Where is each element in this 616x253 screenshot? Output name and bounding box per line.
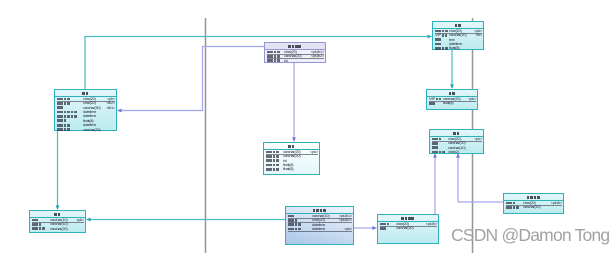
page boundary line left <box>205 18 207 253</box>
wire 清理桌面→厨师员工 (violet) <box>354 227 373 229</box>
wire 订单→桌面 (teal) <box>57 130 59 206</box>
table 订单菜品 (OrderItem) <box>264 42 326 63</box>
arrowhead into 桌面 top edge <box>56 205 60 210</box>
wire 顾客→会员 (teal) <box>451 50 453 85</box>
wire 订单菜品→订单 (violet) <box>121 47 264 111</box>
wire 厨师员工→员工 (violet) <box>434 157 436 214</box>
arrowhead into 菜品 top edge <box>292 137 296 142</box>
table 员工 (Employee) <box>429 129 484 154</box>
table 前台员工 (Front-desk staff) <box>503 193 564 214</box>
arrowhead into 订单 right edge <box>117 109 122 113</box>
table 会员 (VIP level) <box>426 89 478 110</box>
wire 清理桌面→桌面 (teal) <box>90 219 285 221</box>
watermark CSDN @Damon Tong <box>451 225 609 246</box>
arrowhead into 会员 top edge <box>450 84 454 89</box>
arrowhead into 厨师员工 left edge <box>372 226 377 230</box>
wire 前台员工→员工 (violet) <box>458 157 503 202</box>
table 清理桌面 (Table cleaning) <box>285 206 354 245</box>
arrowhead into 顾客 left edge <box>427 35 432 39</box>
table 菜品 (Dish) <box>263 142 320 175</box>
arrowhead into 员工 bottom edge (right) <box>456 153 460 158</box>
table 顾客 (Customer) <box>432 21 484 50</box>
table 桌面 (Dining table) <box>29 210 86 233</box>
wire 订单→顾客 (teal) <box>85 37 427 91</box>
table 厨师员工 (Chef staff) <box>377 214 439 244</box>
wire 订单菜品→菜品 (violet) <box>293 62 295 138</box>
table 订单 (Order) <box>54 89 117 131</box>
page boundary line right <box>472 18 474 253</box>
arrowhead into 桌面 right edge <box>86 218 91 222</box>
arrowhead into 员工 bottom edge (left) <box>433 153 437 158</box>
